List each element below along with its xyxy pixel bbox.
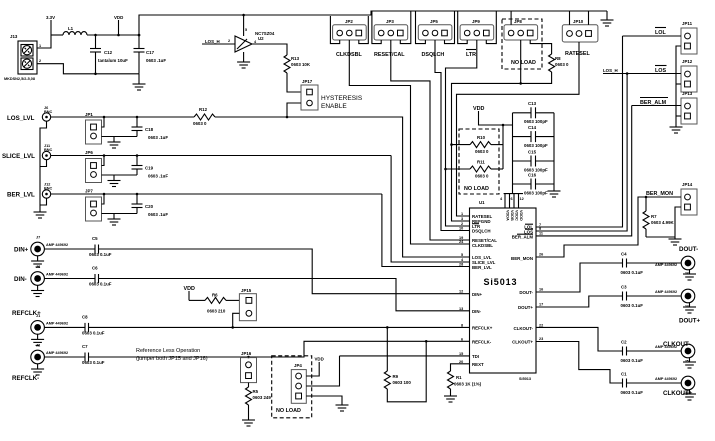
svg-text:C14: C14 xyxy=(528,125,537,130)
svg-text:R5: R5 xyxy=(253,389,259,394)
svg-text:C15: C15 xyxy=(528,150,537,155)
wire JP8 square pin to R8 xyxy=(530,40,551,54)
svg-text:JP2: JP2 xyxy=(345,19,353,24)
svg-text:C5: C5 xyxy=(92,236,98,241)
svg-text:15: 15 xyxy=(459,352,463,356)
wire DIN- to IC pin 13 xyxy=(99,279,470,311)
ground BNC shields common xyxy=(34,205,47,218)
wire L1 to VDD/caps rail xyxy=(87,34,139,36)
svg-text:DOUT-: DOUT- xyxy=(519,290,533,295)
svg-text:C12: C12 xyxy=(104,50,113,55)
connector J11 BNC xyxy=(42,144,52,160)
svg-text:Si5013: Si5013 xyxy=(484,277,518,287)
wire JP16 square pin to R5 xyxy=(248,383,250,387)
svg-text:R11: R11 xyxy=(477,160,485,165)
jumper JP7 xyxy=(85,189,102,222)
ground below J4 xyxy=(683,303,696,314)
svg-text:0603 100pF: 0603 100pF xyxy=(524,119,548,124)
svg-text:C18: C18 xyxy=(145,127,154,132)
svg-text:JP14: JP14 xyxy=(682,182,693,187)
svg-text:12: 12 xyxy=(520,197,524,201)
wire top bus left segment xyxy=(139,11,607,35)
wire JP5 square pin to bus xyxy=(445,11,455,44)
wire JP1 square pin up to row xyxy=(102,117,105,127)
svg-text:(jumper both JP15 and JP16): (jumper both JP15 and JP16) xyxy=(136,356,208,362)
svg-text:JP7: JP7 xyxy=(85,189,93,194)
wire JP15 circle pin to REFCLK+ xyxy=(233,313,240,327)
svg-text:LOS_H: LOS_H xyxy=(205,39,220,44)
wire VDD pins bar xyxy=(500,194,524,208)
wire DSQLCH net to IC xyxy=(435,40,470,231)
svg-text:C8: C8 xyxy=(82,315,88,320)
svg-text:11: 11 xyxy=(539,232,543,236)
jumper JP13 xyxy=(681,91,697,124)
svg-text:U1: U1 xyxy=(479,200,485,205)
ground U2 pin 3 xyxy=(237,52,250,68)
resistor R7 xyxy=(643,197,675,237)
IC left pin numbers xyxy=(459,212,464,364)
svg-text:0603 .1uF: 0603 .1uF xyxy=(148,174,168,179)
jumper JP1 xyxy=(85,112,102,144)
capacitor C8 xyxy=(82,315,105,336)
inductor L1 xyxy=(63,26,87,35)
capacitor C7 xyxy=(82,344,105,365)
capacitor C19 xyxy=(132,156,169,179)
svg-text:LOL: LOL xyxy=(655,30,666,36)
capacitor C1 xyxy=(621,372,644,396)
svg-text:2: 2 xyxy=(461,222,463,226)
svg-text:0603 0.1uF: 0603 0.1uF xyxy=(621,303,644,308)
svg-text:6: 6 xyxy=(511,197,513,201)
ground below JP1 xyxy=(108,137,121,149)
svg-text:JP1: JP1 xyxy=(85,112,93,117)
wire U2 output to R13 xyxy=(252,44,287,55)
svg-text:26: 26 xyxy=(539,253,543,257)
svg-text:3: 3 xyxy=(461,217,463,221)
resistor R5 xyxy=(246,387,272,420)
svg-text:0603 .1uF: 0603 .1uF xyxy=(148,135,168,140)
svg-text:0603 0.1uF: 0603 0.1uF xyxy=(82,360,105,365)
ground below J9 xyxy=(683,390,696,401)
connector J8 SMA xyxy=(31,265,68,285)
dashed no-load box around JP8 xyxy=(502,19,542,69)
svg-text:R13: R13 xyxy=(291,56,300,61)
resistor R8 xyxy=(549,54,569,72)
jumper JP2 xyxy=(333,19,367,58)
wire DOUT- from IC pin 16 xyxy=(536,263,623,292)
jumper JP12 xyxy=(681,59,697,92)
svg-text:DIN-: DIN- xyxy=(14,276,27,283)
svg-text:DIN+: DIN+ xyxy=(472,292,483,297)
svg-text:C4: C4 xyxy=(621,252,627,257)
wire C4 to J3 xyxy=(627,262,682,264)
capacitor C2 xyxy=(621,340,644,364)
jumper JP16 xyxy=(241,351,257,383)
capacitor C15 xyxy=(513,150,555,173)
svg-text:REFCLK-: REFCLK- xyxy=(472,340,492,345)
svg-text:0603 .1uF: 0603 .1uF xyxy=(148,212,168,217)
svg-text:NO LOAD: NO LOAD xyxy=(276,408,301,414)
svg-text:AMP 449692: AMP 449692 xyxy=(46,243,68,247)
jumper JP6 xyxy=(85,150,102,183)
svg-text:MKDSN2,5/2-5,08: MKDSN2,5/2-5,08 xyxy=(4,77,35,81)
ground below J7 xyxy=(31,256,44,267)
svg-text:JP4: JP4 xyxy=(294,363,302,368)
wire JP4 middle pin to TDI row xyxy=(306,356,339,386)
wire JP1 circle pin to cap/ground xyxy=(102,136,138,138)
wire JP3 square pin to bus xyxy=(400,11,411,44)
wire BER_MON net from IC pin 26 xyxy=(536,196,681,257)
svg-text:C3: C3 xyxy=(621,285,627,290)
wire JP6 square pin up to row xyxy=(102,156,105,166)
svg-text:DSQLCH: DSQLCH xyxy=(472,229,491,234)
node VDD at R6 xyxy=(184,286,206,300)
node VDD at JP4 xyxy=(306,357,323,377)
svg-text:0603 0.1uF: 0603 0.1uF xyxy=(621,358,644,363)
wire C1 to J9 xyxy=(627,382,682,384)
IC right pin numbers xyxy=(539,223,543,341)
svg-text:JP12: JP12 xyxy=(682,59,693,64)
node VDD top-left xyxy=(114,15,123,36)
wire JP8 left pin to bus xyxy=(510,11,512,25)
svg-text:VDDC: VDDC xyxy=(515,210,519,221)
wire IC pin11 to JP13 xyxy=(536,106,632,236)
svg-text:REFCLK+: REFCLK+ xyxy=(472,326,493,331)
ground top-right bus end xyxy=(601,11,614,26)
wire JP5 left pin to bus xyxy=(416,11,426,44)
jumper JP15 xyxy=(239,288,256,321)
wire LOS_LVL to IC pin 5 xyxy=(215,117,470,257)
svg-text:DOUT-: DOUT- xyxy=(679,246,698,253)
svg-text:U2: U2 xyxy=(258,36,264,41)
svg-text:0603 0: 0603 0 xyxy=(475,149,489,154)
wire J11 shield tail xyxy=(40,160,47,167)
svg-text:AMP 449692: AMP 449692 xyxy=(655,377,677,381)
svg-text:L1: L1 xyxy=(68,26,74,31)
svg-text:12: 12 xyxy=(459,290,463,294)
wire J7 to C5 xyxy=(45,248,95,250)
ground below JP4 xyxy=(336,405,349,411)
wire LOL net from IC pin 7 xyxy=(623,35,682,37)
wire JP8 center pin down xyxy=(519,40,522,85)
svg-text:0603 10K: 0603 10K xyxy=(291,62,311,67)
svg-text:5: 5 xyxy=(461,253,463,257)
wire CLKOUT- from IC pin 22 xyxy=(536,327,623,351)
svg-text:9: 9 xyxy=(539,227,541,231)
wire J12 to BER_LVL row xyxy=(51,193,382,196)
wire REFCLK+ to IC pin 8 xyxy=(89,326,470,329)
wire J13 pin1 to 3.3V rail xyxy=(37,35,51,48)
svg-text:R10: R10 xyxy=(477,135,486,140)
svg-text:23: 23 xyxy=(539,337,543,341)
svg-text:JP6: JP6 xyxy=(85,150,93,155)
capacitor C3 xyxy=(621,285,644,309)
connector J2 SMA xyxy=(31,344,68,364)
wire VDD cap left rail xyxy=(512,113,514,194)
resistor R9 termination xyxy=(384,327,427,401)
wire LOS net from IC pin 9 xyxy=(603,72,681,75)
svg-text:J8: J8 xyxy=(36,265,40,269)
wire JP7 circle pin to cap/ground xyxy=(102,213,138,215)
ground below R1 xyxy=(444,396,457,402)
wire JP2 square pin to bus xyxy=(359,16,369,44)
3.3V net label xyxy=(46,15,55,35)
svg-text:JP11: JP11 xyxy=(682,21,693,26)
svg-text:HYSTERESIS: HYSTERESIS xyxy=(321,95,363,102)
svg-text:REFCLK-: REFCLK- xyxy=(12,375,39,382)
svg-text:JP3: JP3 xyxy=(386,19,394,24)
wire J8 to C6 xyxy=(45,278,95,280)
svg-text:CLKOUT+: CLKOUT+ xyxy=(663,390,693,397)
svg-text:R6: R6 xyxy=(212,293,218,298)
svg-text:LTR: LTR xyxy=(466,52,476,58)
svg-text:LOS_H: LOS_H xyxy=(603,68,618,73)
svg-text:AMP 449692: AMP 449692 xyxy=(655,290,677,294)
node BER_ALM label xyxy=(640,98,668,107)
svg-text:JP15: JP15 xyxy=(241,288,252,293)
wire REFCLK- row to step-up and IC pin 6 xyxy=(89,341,470,358)
svg-text:RESET/CAL: RESET/CAL xyxy=(374,52,405,58)
svg-text:5: 5 xyxy=(245,28,247,32)
ground below JP6 xyxy=(108,175,121,187)
IC top pin labels VDDA-VDDD xyxy=(506,210,524,221)
svg-text:DSQLCH: DSQLCH xyxy=(422,52,445,58)
svg-text:RATESEL: RATESEL xyxy=(565,51,590,57)
IC left pin labels xyxy=(472,214,497,367)
svg-text:0603 100pF: 0603 100pF xyxy=(524,191,548,196)
svg-text:DIN-: DIN- xyxy=(472,309,482,314)
svg-text:2: 2 xyxy=(39,59,41,63)
svg-text:0603 0.1uF: 0603 0.1uF xyxy=(621,390,644,395)
svg-text:0603 0: 0603 0 xyxy=(193,121,207,126)
svg-text:0603 0.1uF: 0603 0.1uF xyxy=(89,282,112,287)
wire BER_LVL to IC pin 28 xyxy=(382,194,470,267)
svg-text:AMP 449692: AMP 449692 xyxy=(655,345,677,349)
svg-text:6: 6 xyxy=(461,337,463,341)
svg-text:0603 0.1uF: 0603 0.1uF xyxy=(82,331,105,336)
jumper JP14 xyxy=(681,182,697,215)
wire JP17 lower pin to LOS_LVL net xyxy=(286,103,301,118)
wire JP7 square pin up to row xyxy=(102,194,105,204)
svg-text:DOUT+: DOUT+ xyxy=(518,305,533,310)
jumper JP4 xyxy=(291,363,306,403)
resistor R13 xyxy=(284,55,311,77)
wire R10/R11 to VDD rail xyxy=(502,125,504,169)
svg-text:R1: R1 xyxy=(456,375,462,380)
wire JP10 left pin to bus xyxy=(569,11,571,25)
node LOL label xyxy=(655,28,666,37)
capacitor C13 xyxy=(513,101,555,124)
svg-text:J13: J13 xyxy=(10,34,18,39)
wire JP16 top pin to REFCLK- row xyxy=(248,356,250,359)
svg-text:DIN+: DIN+ xyxy=(14,247,29,254)
wire JP9 left pin to bus xyxy=(458,11,468,44)
svg-text:C13: C13 xyxy=(528,101,537,106)
hysteresis enable label xyxy=(321,95,363,110)
capacitor C17 xyxy=(134,34,167,74)
capacitor C20 xyxy=(132,194,169,217)
svg-text:AMP 449692: AMP 449692 xyxy=(46,351,68,355)
capacitor C18 xyxy=(132,117,169,140)
dashed no-load box around JP4 xyxy=(272,356,312,418)
svg-text:3.3V: 3.3V xyxy=(46,15,55,20)
svg-text:BER_LVL: BER_LVL xyxy=(472,265,492,270)
jumper JP17 xyxy=(301,79,318,110)
svg-text:CLKDSBL: CLKDSBL xyxy=(472,243,493,248)
svg-text:R12: R12 xyxy=(199,107,208,112)
svg-text:BER_ALM: BER_ALM xyxy=(512,235,534,240)
ground below R7/JP14 xyxy=(669,237,682,245)
resistor R11 xyxy=(444,160,503,179)
svg-text:JP13: JP13 xyxy=(682,91,693,96)
ground below JP13 xyxy=(670,127,683,133)
svg-text:0603 0.1uF: 0603 0.1uF xyxy=(621,270,644,275)
wire TDI row to IC pin 15 xyxy=(340,355,470,357)
connector J5 SMA xyxy=(655,344,695,363)
svg-text:1: 1 xyxy=(461,212,463,216)
wire J13 pin2 ground rail xyxy=(37,64,139,75)
svg-text:tantalum 10uF: tantalum 10uF xyxy=(98,58,128,63)
connector J7 SMA xyxy=(31,236,68,256)
wire C3 to J4 xyxy=(627,295,682,297)
wire IC pin7 to JP11 xyxy=(536,36,623,227)
svg-text:0603 249: 0603 249 xyxy=(253,395,272,400)
wire SLICE_LVL to IC pin 4 xyxy=(391,156,469,263)
svg-text:C2: C2 xyxy=(621,340,627,345)
capacitor C6 xyxy=(89,266,112,287)
svg-text:R9: R9 xyxy=(393,374,399,379)
svg-text:JP9: JP9 xyxy=(472,19,480,24)
svg-text:VDDA: VDDA xyxy=(506,210,510,221)
svg-text:CLKOUT+: CLKOUT+ xyxy=(512,340,533,345)
svg-text:0603 0.1uF: 0603 0.1uF xyxy=(89,252,112,257)
wire LTR net to IC xyxy=(446,40,477,226)
jumper JP10 xyxy=(562,19,598,57)
svg-text:AMP 449692: AMP 449692 xyxy=(655,263,677,267)
wire JP6 circle pin to cap/ground xyxy=(102,174,138,176)
capacitor C12 xyxy=(90,34,128,74)
svg-text:R7: R7 xyxy=(651,214,657,219)
wire VDD cap right rail xyxy=(553,113,555,191)
connector J13 xyxy=(4,34,41,81)
wire JP10 square pin to bus xyxy=(588,11,590,25)
wire JP4 square pin to ground xyxy=(306,396,342,405)
svg-text:VDDB: VDDB xyxy=(510,210,514,221)
connector J1 SMA xyxy=(31,314,68,334)
jumper JP8 (no load) xyxy=(504,19,538,40)
capacitor C5 xyxy=(89,236,112,257)
capacitor C16 xyxy=(513,173,555,196)
connector J9 SMA xyxy=(655,376,695,395)
svg-text:C19: C19 xyxy=(145,166,154,171)
wire JP2 left pin to bus xyxy=(330,16,339,44)
wire JP11/12/13 square pins ground chain xyxy=(676,46,681,127)
wire U2 VDD pin 5 xyxy=(242,14,247,36)
svg-text:J7: J7 xyxy=(36,236,40,240)
op-amp buffer U2 NC7SZ04 xyxy=(228,31,275,52)
ground below cap rail xyxy=(548,191,561,197)
svg-text:C17: C17 xyxy=(146,50,155,55)
svg-text:SLICE_LVL: SLICE_LVL xyxy=(2,153,35,160)
jumper JP5 xyxy=(418,19,452,58)
wire IC pin9 to JP12 xyxy=(536,74,627,232)
wire CLKDSBL net to IC xyxy=(349,40,469,244)
wire R8 bottom / JP8 net to IC pin 3 xyxy=(452,72,552,221)
svg-text:0603 210: 0603 210 xyxy=(207,309,226,314)
svg-text:10: 10 xyxy=(459,227,463,231)
svg-text:13: 13 xyxy=(459,307,463,311)
svg-text:0603 1K (1%): 0603 1K (1%) xyxy=(454,382,482,387)
ground below J3 xyxy=(683,270,696,281)
wire J1 to C8 xyxy=(45,326,85,328)
svg-text:0603 0: 0603 0 xyxy=(555,62,569,67)
ground below J8 xyxy=(31,286,44,297)
svg-text:8: 8 xyxy=(461,323,463,327)
svg-text:16: 16 xyxy=(539,288,543,292)
svg-text:VDDD: VDDD xyxy=(519,210,523,221)
ground below J5 xyxy=(683,358,696,369)
node LOS_H at U2 input xyxy=(202,39,235,44)
svg-text:AMP 449692: AMP 449692 xyxy=(46,321,68,325)
svg-text:DOUT+: DOUT+ xyxy=(679,318,701,325)
wire JP9 square pin to bus xyxy=(486,11,496,44)
svg-text:0603 .1uF: 0603 .1uF xyxy=(146,58,166,63)
ground below R5 xyxy=(242,420,255,426)
wire J6 shield tail xyxy=(40,121,47,205)
svg-text:0603 0: 0603 0 xyxy=(475,174,489,179)
connector J4 SMA xyxy=(655,289,695,308)
wire C2 to J5 xyxy=(627,350,682,352)
ground below J2 xyxy=(31,364,44,375)
IC right pin labels xyxy=(511,224,534,344)
svg-text:28: 28 xyxy=(459,263,463,267)
dashed no-load box around R10/R11 xyxy=(459,129,499,194)
svg-text:J1: J1 xyxy=(36,314,40,318)
resistor R6 xyxy=(205,293,239,314)
svg-text:JP16: JP16 xyxy=(241,351,252,356)
capacitor C14 xyxy=(513,125,555,148)
svg-text:Reference Less Operation: Reference Less Operation xyxy=(136,348,200,354)
svg-text:VDD: VDD xyxy=(114,15,123,20)
node LOS label xyxy=(655,66,667,75)
svg-text:R8: R8 xyxy=(555,56,561,61)
svg-text:C16: C16 xyxy=(528,173,537,178)
wire J6 to LOS_LVL row xyxy=(51,116,194,119)
wire 3.3V rail to L1 xyxy=(51,34,63,36)
jumper JP11 xyxy=(681,21,697,54)
resistor R12 inline on LOS_LVL xyxy=(193,107,215,126)
svg-text:17: 17 xyxy=(539,303,543,307)
ground below J1 xyxy=(31,334,44,345)
wire DIN+ to IC pin 12 xyxy=(99,249,470,294)
svg-text:JP10: JP10 xyxy=(573,19,584,24)
svg-text:JP8: JP8 xyxy=(514,19,522,24)
svg-text:REXT: REXT xyxy=(472,362,484,367)
svg-text:TDI: TDI xyxy=(472,354,479,359)
svg-text:VDD: VDD xyxy=(315,357,324,362)
svg-text:C7: C7 xyxy=(82,344,88,349)
capacitor C4 xyxy=(621,252,644,276)
node VDD center xyxy=(473,106,513,126)
svg-text:C20: C20 xyxy=(145,204,154,209)
resistor R10 xyxy=(450,135,503,154)
wire RATESEL net to IC pin 1 xyxy=(457,42,580,216)
wire R13 to JP17 xyxy=(287,77,301,92)
wire DOUT+ from IC pin 17 xyxy=(536,296,623,307)
svg-text:AMP 449692: AMP 449692 xyxy=(46,273,68,277)
svg-text:NO LOAD: NO LOAD xyxy=(511,60,536,66)
jumper JP9 xyxy=(460,19,494,58)
